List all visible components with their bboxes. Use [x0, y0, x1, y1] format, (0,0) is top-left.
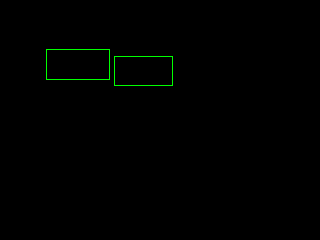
component box B2 (right rectangle outline) [114, 56, 173, 86]
component box B1 (left rectangle outline) [46, 49, 110, 80]
